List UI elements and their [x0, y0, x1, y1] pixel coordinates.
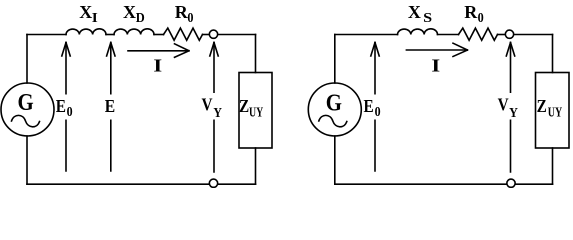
svg-text:I: I [431, 56, 440, 76]
svg-text:V: V [498, 95, 509, 115]
svg-text:0: 0 [187, 10, 193, 25]
svg-text:0: 0 [375, 104, 381, 119]
svg-text:UY: UY [249, 104, 263, 119]
svg-text:E: E [364, 96, 374, 116]
svg-text:G: G [18, 90, 34, 116]
svg-text:E: E [56, 96, 66, 116]
svg-text:Y: Y [509, 105, 518, 120]
svg-text:G: G [326, 90, 342, 116]
svg-text:X: X [123, 2, 136, 22]
svg-text:D: D [136, 10, 145, 25]
svg-text:V: V [202, 95, 213, 115]
svg-text:0: 0 [67, 104, 73, 119]
svg-text:X: X [79, 2, 92, 22]
svg-text:0: 0 [478, 10, 484, 25]
svg-text:X: X [408, 2, 421, 22]
svg-text:S: S [423, 10, 432, 25]
svg-text:UY: UY [548, 104, 563, 119]
svg-text:I: I [92, 10, 98, 25]
svg-text:I: I [153, 56, 162, 76]
svg-text:Y: Y [213, 105, 222, 120]
svg-text:E: E [105, 96, 115, 116]
svg-text:Z: Z [537, 96, 547, 116]
svg-text:Z: Z [239, 96, 249, 116]
svg-text:R: R [464, 2, 478, 22]
